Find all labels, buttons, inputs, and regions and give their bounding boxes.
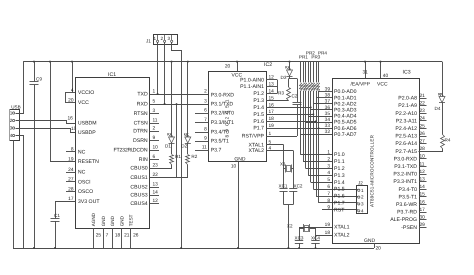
svg-text:TXD: TXD (137, 92, 148, 98)
svg-text:10: 10 (153, 145, 159, 151)
svg-text:IC1: IC1 (108, 72, 116, 78)
svg-text:P1.2: P1.2 (253, 91, 264, 97)
svg-text:PR4: PR4 (318, 50, 327, 55)
svg-text:P1.7: P1.7 (334, 201, 345, 207)
svg-text:10: 10 (231, 163, 237, 169)
svg-text:P2.3-A11: P2.3-A11 (396, 118, 417, 124)
svg-text:P3.2-INT0: P3.2-INT0 (393, 172, 417, 178)
svg-text:P3.6-WR: P3.6-WR (396, 202, 417, 208)
svg-text:P3.1-TXD: P3.1-TXD (394, 164, 417, 170)
svg-text:/EA/VPP: /EA/VPP (351, 81, 371, 87)
svg-text:USB: USB (11, 104, 20, 109)
svg-text:3V3 OUT: 3V3 OUT (78, 199, 100, 205)
svg-text:P1.0: P1.0 (334, 152, 345, 158)
svg-text:DCDN: DCDN (133, 148, 148, 154)
svg-text:14: 14 (153, 190, 159, 196)
svg-text:18: 18 (115, 233, 121, 239)
svg-text:C2: C2 (292, 94, 298, 99)
svg-text:XTAL1: XTAL1 (334, 225, 350, 231)
svg-text:P2.1-A9: P2.1-A9 (398, 103, 417, 109)
svg-text:4: 4 (361, 208, 364, 213)
svg-text:P1.1-AIN1: P1.1-AIN1 (240, 84, 264, 90)
svg-text:2: 2 (160, 36, 163, 41)
svg-text:P0.6-AD6: P0.6-AD6 (334, 126, 357, 132)
svg-text:J2: J2 (358, 180, 363, 185)
svg-text:CBUS0: CBUS0 (130, 166, 147, 172)
svg-text:7: 7 (106, 233, 109, 239)
svg-text:12: 12 (420, 169, 426, 175)
svg-text:28: 28 (68, 186, 74, 192)
svg-text:17: 17 (420, 207, 426, 213)
svg-text:P1.0-AIN0: P1.0-AIN0 (240, 77, 264, 83)
svg-text:X1: X1 (280, 161, 286, 166)
svg-text:C1: C1 (54, 213, 60, 218)
svg-text:RESETN: RESETN (78, 159, 99, 165)
svg-text:4: 4 (10, 133, 13, 138)
svg-text:1: 1 (10, 111, 13, 116)
svg-text:P3.0-RXD: P3.0-RXD (211, 93, 235, 99)
svg-text:P0.4-AD4: P0.4-AD4 (334, 114, 357, 120)
svg-text:21: 21 (124, 233, 130, 239)
svg-text:RIN: RIN (139, 157, 148, 163)
svg-text:P3.7: P3.7 (211, 148, 222, 154)
svg-text:16: 16 (68, 116, 74, 122)
svg-text:USBDP: USBDP (78, 130, 96, 136)
svg-text:-PSEN: -PSEN (401, 225, 417, 231)
svg-text:AGND: AGND (91, 212, 96, 226)
svg-text:20: 20 (376, 245, 382, 251)
svg-text:7: 7 (204, 117, 207, 123)
svg-text:OSCI: OSCI (78, 179, 91, 185)
svg-text:NC: NC (78, 170, 86, 176)
svg-text:P2.6-A14: P2.6-A14 (395, 141, 417, 147)
svg-text:25: 25 (96, 233, 102, 239)
svg-text:J1: J1 (146, 39, 151, 44)
svg-text:P1.3: P1.3 (253, 98, 264, 104)
svg-text:GND: GND (119, 215, 124, 226)
svg-text:39: 39 (325, 87, 331, 93)
svg-text:P1.6: P1.6 (334, 194, 345, 200)
svg-text:IC3: IC3 (403, 70, 411, 76)
svg-text:RTSN: RTSN (134, 111, 148, 117)
svg-text:3: 3 (10, 126, 13, 131)
svg-text:P0.1-AD1: P0.1-AD1 (334, 95, 357, 101)
svg-text:D2: D2 (181, 144, 187, 149)
svg-text:26: 26 (133, 233, 139, 239)
svg-text:P2.5-A13: P2.5-A13 (395, 134, 417, 140)
svg-text:4: 4 (71, 88, 74, 94)
svg-text:R3: R3 (278, 91, 284, 96)
svg-text:CBUS2: CBUS2 (130, 185, 147, 191)
svg-text:9: 9 (204, 135, 207, 141)
svg-text:GND: GND (110, 215, 115, 226)
svg-text:34: 34 (325, 117, 331, 123)
svg-text:P1.1: P1.1 (334, 159, 345, 165)
svg-text:8: 8 (204, 126, 207, 132)
svg-text:38: 38 (325, 93, 331, 99)
svg-text:FT232RL: FT232RL (114, 148, 135, 154)
svg-text:P3.0-RXD: P3.0-RXD (394, 156, 418, 162)
svg-text:P3.3-INT1: P3.3-INT1 (393, 179, 417, 185)
svg-text:P2.0-A8: P2.0-A8 (398, 96, 417, 102)
svg-text:XC1: XC1 (279, 183, 288, 188)
svg-text:18: 18 (325, 230, 331, 236)
svg-text:RST: RST (334, 207, 345, 213)
svg-text:P3.1/TXD: P3.1/TXD (211, 102, 234, 108)
svg-text:P3.3/INT1: P3.3/INT1 (211, 120, 234, 126)
svg-text:11: 11 (153, 118, 158, 124)
svg-text:VCC: VCC (377, 81, 388, 87)
svg-text:7: 7 (327, 191, 330, 197)
svg-text:P2.7-A15: P2.7-A15 (395, 149, 417, 155)
svg-text:X2: X2 (287, 224, 293, 229)
svg-text:AT89C51-MICROCONTROLLER: AT89C51-MICROCONTROLLER (370, 134, 375, 207)
svg-text:XC3: XC3 (295, 235, 304, 240)
svg-text:37: 37 (325, 99, 331, 105)
svg-text:P1.6: P1.6 (253, 119, 264, 125)
svg-text:2: 2 (153, 126, 156, 132)
svg-text:XC4: XC4 (311, 235, 320, 240)
svg-text:31: 31 (363, 70, 369, 76)
svg-text:P0.5-AD5: P0.5-AD5 (334, 120, 357, 126)
svg-text:P0.3-AD3: P0.3-AD3 (334, 108, 357, 114)
svg-text:2: 2 (327, 156, 330, 162)
svg-text:OSCO: OSCO (78, 189, 93, 195)
svg-text:CBUS1: CBUS1 (130, 175, 147, 181)
svg-text:P0.0-AD0: P0.0-AD0 (334, 89, 357, 95)
svg-text:1: 1 (153, 36, 156, 41)
svg-text:24: 24 (68, 167, 74, 173)
svg-text:R2: R2 (191, 154, 197, 159)
svg-text:P3.4/T0: P3.4/T0 (211, 130, 229, 136)
svg-text:13: 13 (153, 182, 159, 188)
svg-text:3: 3 (168, 36, 171, 41)
svg-text:3: 3 (327, 163, 330, 169)
svg-text:2: 2 (204, 88, 207, 94)
svg-text:3: 3 (204, 98, 207, 104)
svg-text:6: 6 (204, 107, 207, 113)
svg-text:1: 1 (269, 131, 272, 137)
svg-text:26: 26 (420, 131, 426, 137)
svg-text:P3.2/INT0: P3.2/INT0 (211, 111, 234, 117)
svg-text:RST/VPP: RST/VPP (242, 134, 265, 140)
svg-text:20: 20 (68, 97, 74, 103)
svg-text:8: 8 (327, 198, 330, 204)
svg-text:P1.5: P1.5 (334, 187, 345, 193)
svg-text:P0.7-AD7: P0.7-AD7 (334, 132, 357, 138)
svg-text:P2.4-A12: P2.4-A12 (395, 126, 417, 132)
svg-text:P3.7-RD: P3.7-RD (397, 210, 417, 216)
svg-text:1: 1 (327, 150, 330, 156)
svg-text:GND: GND (364, 238, 376, 244)
svg-text:P1.4: P1.4 (334, 180, 345, 186)
svg-text:P3.4-T0: P3.4-T0 (399, 187, 418, 193)
svg-text:R1: R1 (175, 154, 181, 159)
svg-text:3: 3 (361, 202, 364, 207)
svg-text:8: 8 (71, 147, 74, 153)
svg-text:4: 4 (327, 170, 330, 176)
svg-text:2: 2 (361, 195, 364, 200)
svg-text:P2.2-A10: P2.2-A10 (395, 111, 417, 117)
svg-text:9: 9 (327, 205, 330, 211)
svg-text:VCCIO: VCCIO (78, 90, 94, 96)
svg-text:GND: GND (234, 156, 246, 162)
svg-text:33: 33 (325, 123, 331, 129)
svg-text:32: 32 (325, 129, 331, 135)
svg-text:1: 1 (153, 89, 156, 95)
svg-text:19: 19 (68, 157, 74, 163)
svg-text:CBUS3: CBUS3 (130, 193, 147, 199)
svg-text:5: 5 (327, 177, 330, 183)
svg-text:XTAL2: XTAL2 (249, 148, 265, 154)
svg-text:VCC: VCC (78, 100, 89, 106)
svg-text:21: 21 (420, 93, 426, 99)
svg-text:1: 1 (361, 188, 364, 193)
svg-text:19: 19 (325, 222, 331, 228)
svg-text:40: 40 (383, 73, 389, 79)
svg-text:D4: D4 (435, 106, 441, 111)
svg-text:D3: D3 (281, 75, 287, 80)
svg-text:CTSN: CTSN (134, 121, 148, 127)
svg-text:XTAL2: XTAL2 (334, 233, 350, 239)
svg-text:IC2: IC2 (264, 62, 272, 68)
svg-text:P3.5/T1: P3.5/T1 (211, 139, 229, 145)
svg-text:D1: D1 (165, 144, 171, 149)
svg-text:P1.5: P1.5 (253, 112, 264, 118)
svg-text:P3.5-T1: P3.5-T1 (399, 194, 418, 200)
svg-text:R4: R4 (445, 138, 451, 143)
svg-text:RXD: RXD (137, 102, 148, 108)
svg-text:P1.2: P1.2 (334, 166, 345, 172)
svg-text:CBUS4: CBUS4 (130, 201, 147, 207)
svg-text:GND: GND (101, 215, 106, 226)
svg-text:XC2: XC2 (294, 183, 303, 188)
svg-text:23: 23 (153, 163, 159, 169)
svg-text:USBDM: USBDM (78, 121, 97, 127)
svg-text:DTRN: DTRN (133, 129, 148, 135)
svg-text:11: 11 (202, 144, 207, 150)
svg-text:5: 5 (153, 99, 156, 105)
svg-text:ALE-PROG: ALE-PROG (390, 217, 417, 223)
svg-text:35: 35 (325, 111, 331, 117)
svg-text:NC: NC (78, 149, 86, 155)
svg-text:27: 27 (68, 177, 74, 183)
svg-text:P1.3: P1.3 (334, 173, 345, 179)
svg-text:36: 36 (325, 105, 331, 111)
svg-text:TEST: TEST (128, 214, 133, 226)
svg-text:20: 20 (225, 63, 231, 69)
svg-text:P1.4: P1.4 (253, 105, 264, 111)
svg-text:6: 6 (327, 184, 330, 190)
svg-text:C9: C9 (36, 77, 42, 82)
svg-text:2: 2 (10, 118, 13, 123)
svg-text:P0.2-AD2: P0.2-AD2 (334, 101, 357, 107)
svg-text:P1.7: P1.7 (253, 126, 264, 132)
svg-text:DSRN: DSRN (133, 138, 148, 144)
